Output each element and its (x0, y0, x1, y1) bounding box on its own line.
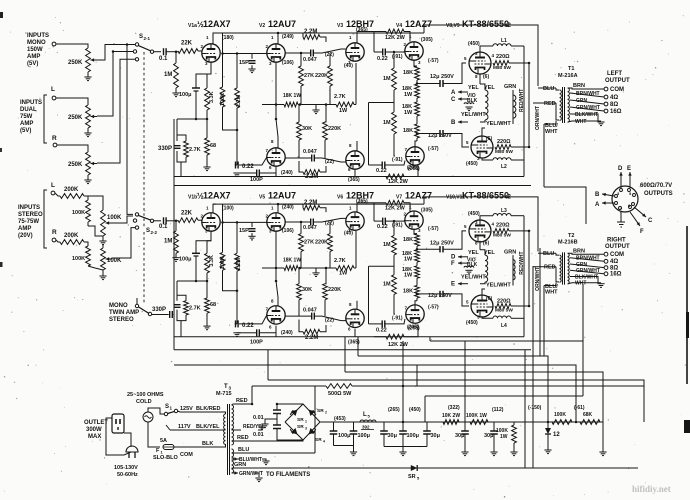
resistor 220K (323, 122, 328, 140)
capacitor 0.047 (311, 313, 313, 320)
svg-text:AMP: AMP (18, 226, 31, 232)
connector 600ohm outputs (612, 186, 638, 212)
svg-text:S: S (165, 404, 169, 410)
svg-text:0.047: 0.047 (303, 307, 317, 313)
resistor 220 screen (493, 229, 509, 234)
svg-text:S: S (146, 228, 150, 234)
wire (166, 425, 170, 430)
svg-text:(365): (365) (356, 27, 368, 33)
wire (443, 231, 466, 249)
wire (423, 197, 425, 204)
svg-text:4Ω: 4Ω (610, 95, 618, 101)
wire (416, 98, 418, 102)
wire (570, 277, 598, 283)
svg-text:0.047: 0.047 (303, 57, 317, 63)
wire (369, 102, 395, 104)
wire (232, 472, 235, 474)
transformer T3 core (227, 404, 229, 475)
ground (248, 68, 255, 70)
wire (416, 298, 418, 301)
ground zener (544, 449, 551, 451)
wire (320, 208, 326, 212)
wire (385, 219, 404, 222)
svg-text:T2: T2 (568, 233, 574, 239)
svg-text:C: C (648, 218, 653, 224)
wire (198, 50, 202, 52)
wire (314, 158, 345, 162)
wire (533, 102, 556, 104)
wire (102, 236, 104, 241)
wire (414, 61, 417, 67)
triode V1a (202, 44, 220, 62)
wire (232, 467, 329, 469)
wire (368, 266, 370, 324)
svg-text:10K 2W: 10K 2W (442, 413, 460, 419)
resistor 220K (323, 284, 328, 300)
wire (511, 146, 529, 148)
wire (175, 221, 177, 231)
svg-text:L: L (363, 412, 367, 418)
wire (570, 270, 604, 274)
wire (167, 220, 179, 222)
wire (479, 74, 481, 84)
svg-text:12AX7: 12AX7 (203, 19, 231, 29)
resistor 1M (392, 68, 397, 90)
wire (56, 44, 88, 48)
wire (170, 429, 222, 431)
junction (276, 403, 279, 406)
junction (325, 267, 328, 270)
resistor 1M (392, 235, 397, 255)
junction (528, 62, 531, 65)
wire (232, 440, 304, 441)
svg-text:OUTLET: OUTLET (84, 420, 108, 426)
wire (556, 103, 559, 120)
resistor 18K 1W (415, 266, 420, 279)
wire (178, 411, 222, 412)
junction (528, 305, 531, 308)
svg-text:R: R (52, 229, 57, 236)
wire (238, 458, 240, 460)
wire (174, 336, 524, 338)
svg-text:V6: V6 (337, 195, 343, 201)
svg-text:0.22: 0.22 (377, 56, 388, 62)
wire (414, 229, 417, 234)
capacitor 0.22 (382, 218, 384, 225)
wire (277, 204, 279, 213)
svg-text:OUTPUT: OUTPUT (605, 78, 630, 84)
wire (424, 25, 538, 86)
junction (277, 203, 280, 206)
wire (570, 100, 604, 104)
svg-text:RED: RED (544, 265, 556, 271)
diode SR1 (291, 410, 298, 417)
pentode V9 (471, 295, 493, 317)
svg-text:(106): (106) (282, 60, 294, 66)
wire (329, 53, 331, 66)
wire (394, 134, 395, 156)
wire (424, 396, 426, 422)
wire (329, 252, 331, 269)
svg-text:OUTPUTS: OUTPUTS (644, 191, 673, 197)
svg-text:V5: V5 (259, 195, 265, 201)
triode V4b (406, 147, 424, 165)
wire (543, 288, 545, 356)
svg-text:30μ: 30μ (388, 433, 397, 439)
resistor 200K b (60, 240, 84, 245)
resistor 18K (415, 66, 420, 80)
junction (236, 290, 239, 293)
wire (213, 32, 424, 34)
wire (356, 301, 358, 309)
ground cap mid (261, 423, 268, 425)
wire (175, 253, 177, 257)
svg-text:(453): (453) (334, 416, 346, 422)
switch S2-2 contact 1 (135, 213, 138, 216)
svg-text:220Ω: 220Ω (497, 139, 511, 145)
inductor L2 (493, 158, 511, 160)
wire (582, 284, 584, 341)
svg-text:(40): (40) (344, 231, 353, 237)
wire (513, 422, 515, 425)
wire (582, 341, 584, 396)
svg-text:TO FILAMENTS: TO FILAMENTS (266, 472, 310, 478)
fuse F1 (163, 445, 174, 450)
ground (99, 275, 106, 277)
svg-text:220K: 220K (315, 73, 328, 79)
wire (352, 385, 644, 387)
svg-text:(5V): (5V) (20, 128, 31, 134)
wire (57, 145, 88, 152)
wire (154, 220, 161, 222)
wire (237, 332, 241, 334)
wire (402, 422, 404, 431)
resistor 100K 1W f (470, 420, 488, 425)
svg-text:220Ω: 220Ω (496, 223, 510, 229)
svg-text:(450): (450) (468, 41, 480, 47)
svg-text:(450): (450) (466, 320, 478, 326)
svg-text:WHT: WHT (575, 281, 586, 287)
capacitor 0.01 a (273, 409, 281, 411)
transformer core (562, 87, 564, 123)
wire (523, 216, 525, 337)
wire (416, 116, 418, 124)
capacitor 100P (256, 329, 258, 336)
svg-text:GRN: GRN (504, 249, 516, 255)
wire (87, 175, 89, 180)
triode V3b (346, 151, 364, 169)
terminal 8 (604, 266, 608, 270)
wire (235, 323, 237, 325)
wire (443, 134, 469, 148)
svg-text:117V: 117V (178, 424, 191, 430)
svg-text:0.1: 0.1 (159, 56, 168, 62)
diode SR2 (309, 410, 316, 417)
svg-text:1M: 1M (383, 120, 391, 126)
triode V3 (346, 43, 364, 61)
ground f12 (350, 451, 357, 453)
svg-text:100K: 100K (107, 215, 122, 221)
junction (402, 421, 405, 424)
junction (416, 132, 419, 135)
resistor 18K 1W (284, 266, 298, 271)
wire (373, 32, 375, 53)
wire (320, 421, 332, 423)
resistor 18K (415, 286, 420, 299)
wire (556, 267, 559, 282)
svg-text:220K: 220K (315, 239, 328, 245)
wire (393, 52, 395, 68)
svg-text:(265): (265) (388, 407, 400, 413)
triode V2 (267, 44, 285, 62)
ground (203, 325, 210, 327)
resistor 220 screen (493, 61, 509, 66)
svg-text:4: 4 (323, 440, 325, 444)
svg-text:MAX: MAX (88, 434, 101, 440)
wire (239, 158, 267, 166)
bridge frame (285, 404, 320, 440)
triode V5 (267, 213, 285, 231)
svg-text:COM: COM (610, 252, 624, 258)
wire (268, 380, 644, 422)
svg-text:12K 2W: 12K 2W (388, 179, 409, 185)
switch contact 2 (133, 50, 136, 53)
wire (480, 250, 485, 255)
wire (320, 166, 326, 172)
resistor 2.7K 1W h (336, 266, 354, 271)
wire (355, 231, 357, 268)
svg-text:100K: 100K (107, 258, 122, 264)
capacitor 0.047 (311, 155, 313, 162)
wire (102, 270, 104, 276)
svg-text:T: T (224, 384, 228, 390)
svg-text:BLK: BLK (467, 262, 478, 268)
wire (180, 162, 182, 177)
svg-text:YEL: YEL (468, 85, 479, 91)
transformer T1 secondary (568, 88, 570, 122)
svg-text:COLD: COLD (136, 399, 152, 405)
wire (300, 252, 302, 269)
svg-text:50-60Hz: 50-60Hz (117, 472, 138, 478)
capacitor 0.22 (235, 162, 237, 169)
svg-text:V8,V9: V8,V9 (446, 23, 460, 29)
svg-text:SR: SR (408, 474, 416, 480)
wire (393, 90, 395, 112)
ground f7 (490, 451, 497, 453)
OPT primary half (485, 90, 488, 120)
svg-text:V4: V4 (396, 23, 402, 29)
svg-text:1: 1 (305, 420, 307, 424)
svg-text:8Ω: 8Ω (610, 265, 618, 271)
wire (568, 88, 604, 89)
capacitor 0.1 (163, 48, 165, 55)
svg-text:M80 5W: M80 5W (495, 149, 513, 155)
switch mono-stereo (135, 304, 138, 307)
wire (232, 429, 242, 431)
junction (393, 220, 396, 223)
svg-text:SR: SR (297, 417, 304, 423)
ground (99, 240, 106, 242)
wire (314, 316, 345, 321)
ground 68k (599, 451, 606, 453)
svg-text:5A: 5A (160, 438, 167, 444)
wire (324, 140, 326, 158)
svg-text:125V: 125V (180, 406, 193, 412)
wire (482, 128, 485, 136)
wire (275, 167, 277, 177)
wire (404, 32, 410, 42)
ground f345 (399, 451, 406, 453)
wire cap bottoms (333, 434, 335, 446)
wire (206, 110, 208, 119)
svg-text:18K: 18K (403, 128, 413, 134)
wire (55, 193, 60, 196)
wire (426, 422, 428, 431)
svg-text:F: F (451, 261, 455, 267)
terminal 8 (604, 102, 608, 106)
wire (232, 452, 316, 454)
wire (222, 412, 226, 414)
wire (180, 321, 182, 337)
junction (221, 52, 224, 55)
svg-text:(-150): (-150) (528, 405, 542, 411)
svg-text:2.2M: 2.2M (236, 94, 242, 107)
junction (195, 118, 198, 121)
svg-text:(6): (6) (486, 296, 492, 302)
resistor 12K 2W lower (386, 334, 404, 339)
wire (417, 293, 440, 295)
wire (223, 53, 267, 55)
svg-text:200K: 200K (64, 187, 79, 193)
wire (568, 252, 604, 255)
wire (532, 266, 534, 468)
wire (417, 83, 440, 85)
wire (369, 323, 383, 325)
capacitor 0.047 (310, 50, 312, 57)
svg-text:0.047: 0.047 (303, 149, 317, 155)
svg-text:1W: 1W (339, 271, 348, 277)
wire (174, 446, 222, 448)
svg-text:S: S (139, 34, 143, 40)
svg-text:(365): (365) (356, 198, 368, 204)
svg-text:YEL/WHT: YEL/WHT (486, 121, 511, 127)
wire (464, 434, 466, 452)
svg-text:15P: 15P (239, 228, 249, 234)
svg-text:WHT: WHT (575, 119, 586, 125)
ground (172, 257, 179, 259)
svg-text:(40): (40) (344, 63, 353, 69)
svg-text:100K: 100K (72, 256, 85, 262)
switch S2-1 contact 1 (135, 43, 138, 46)
svg-text:L4: L4 (501, 323, 507, 329)
wire (538, 87, 556, 89)
ground (465, 269, 472, 271)
svg-text:15P: 15P (239, 60, 249, 66)
wire (374, 51, 383, 53)
wire (97, 45, 135, 61)
svg-text:1M: 1M (383, 242, 391, 248)
wire (416, 80, 418, 84)
junction (236, 52, 239, 55)
wire (207, 241, 211, 254)
capacitor 15P (249, 228, 256, 230)
wire (568, 121, 601, 122)
svg-text:100K 1W: 100K 1W (466, 413, 487, 419)
wire (298, 140, 300, 158)
svg-text:12AU7: 12AU7 (268, 19, 296, 29)
svg-text:D: D (451, 255, 456, 261)
wire (404, 203, 410, 212)
ground output (597, 283, 604, 285)
wire (167, 51, 179, 53)
wire (84, 196, 88, 200)
svg-text:MONO: MONO (109, 303, 128, 309)
wire (417, 248, 440, 250)
svg-text:RED: RED (544, 101, 556, 107)
wire (415, 301, 417, 306)
svg-text:1W: 1W (339, 108, 348, 114)
resistor 2.7K (184, 301, 189, 315)
wire (415, 141, 417, 147)
capacitor 330P (174, 145, 181, 147)
svg-text:YEL/WHT: YEL/WHT (461, 112, 486, 118)
svg-text:L1: L1 (501, 38, 507, 44)
wire (258, 426, 262, 430)
wire (404, 325, 418, 337)
svg-text:2: 2 (325, 411, 327, 415)
svg-text:STEREO: STEREO (18, 212, 43, 218)
resistor 12K 2W (386, 200, 404, 205)
wire (544, 121, 556, 124)
wire (332, 421, 603, 423)
capacitor 0.22 (235, 320, 237, 327)
resistor 18K 1W (284, 102, 298, 107)
resistor 2.2M (303, 35, 320, 40)
svg-text:3.3K: 3.3K (209, 91, 215, 103)
wire (213, 203, 424, 205)
wire (222, 429, 226, 431)
svg-text:A: A (595, 202, 600, 208)
svg-text:(6): (6) (486, 136, 492, 142)
svg-text:(6): (6) (483, 74, 489, 80)
arrow E (629, 172, 631, 188)
ground (84, 179, 91, 181)
resistor 68K (580, 420, 600, 425)
wire (232, 404, 253, 405)
wire (509, 230, 529, 232)
svg-text:18K: 18K (403, 70, 413, 76)
wire (511, 159, 524, 161)
svg-text:18K 1W: 18K 1W (283, 257, 301, 263)
ground connector (617, 221, 625, 223)
transformer T1 primary (560, 90, 562, 120)
svg-text:E: E (451, 282, 455, 288)
wire (241, 332, 250, 334)
svg-text:YEL/WHT: YEL/WHT (461, 274, 486, 280)
svg-text:3.3K: 3.3K (209, 255, 215, 267)
junction (393, 51, 396, 54)
potentiometer 100K b (101, 248, 106, 270)
svg-text:16Ω: 16Ω (610, 272, 622, 278)
inductor L3 (493, 213, 511, 215)
svg-text:12AZ7: 12AZ7 (405, 19, 432, 29)
wire (276, 119, 278, 148)
wire (177, 151, 186, 162)
terminal COM (604, 87, 608, 91)
junction (251, 403, 254, 406)
wire (394, 294, 395, 314)
input terminal stereo R (52, 238, 56, 242)
